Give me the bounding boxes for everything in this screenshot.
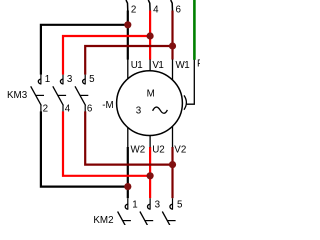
KM3 pole 5-6: blade [75, 86, 86, 105]
motor lead U2 [149, 136, 151, 148]
wire: dark-red loop to KM3 contact 5 [85, 46, 172, 75]
svg-text:U2: U2 [152, 144, 165, 155]
junction dot at line 4 [147, 32, 154, 39]
svg-text:PE: PE [197, 59, 200, 70]
svg-text:M: M [147, 88, 155, 99]
motor PE terminal arc [184, 95, 186, 109]
KM3 pole 5-6: bottom stub [84, 105, 86, 112]
KM3 pole 3-4: terminal bowl [60, 79, 63, 84]
svg-text:1: 1 [132, 200, 137, 211]
KM2 pole 3: terminal stub [149, 198, 151, 209]
KM2 pole 1: blade [118, 212, 129, 231]
svg-text:3: 3 [136, 105, 142, 116]
wire: red return loop KM3-4 to motor U2 [63, 111, 150, 175]
wire: motor U2 down to KM2 pin 3 [149, 147, 151, 198]
svg-text:3: 3 [67, 74, 73, 85]
motor lead W1 [172, 59, 174, 80]
KM2 pole 5: terminal stub [172, 198, 174, 209]
KM2 pole 5: terminal bowl [170, 204, 173, 209]
junction dot at line 2 [124, 21, 131, 28]
wire: red phase to motor V1 [149, 11, 151, 60]
wire: motor V2 down to KM2 pin 5 [171, 147, 173, 198]
motor lead V2 [172, 126, 174, 147]
wire: dark-red phase to motor W1 [171, 11, 173, 60]
svg-text:3: 3 [155, 200, 161, 211]
svg-text:-M: -M [102, 100, 113, 111]
wire: black phase to motor U1 [127, 11, 129, 60]
KM3 pole 1-2: fixed tick [36, 94, 44, 96]
svg-text:W2: W2 [131, 144, 146, 155]
wire: black return loop KM3-2 to motor W2 [41, 111, 128, 186]
svg-text:V1: V1 [152, 60, 163, 71]
svg-text:KM3: KM3 [7, 90, 28, 101]
svg-text:5: 5 [89, 74, 95, 85]
svg-text:U1: U1 [131, 60, 143, 71]
svg-text:4: 4 [153, 4, 159, 15]
KM3 pole 3-4: fixed tick [58, 94, 66, 96]
svg-text:5: 5 [177, 200, 183, 211]
svg-text:2: 2 [131, 4, 136, 15]
junction dot U2 [147, 172, 154, 179]
KM3 pole 1-2: bottom stub [40, 105, 42, 112]
KM2 pole 1: terminal stub [127, 198, 129, 209]
KM2 pole 1: fixed tick [123, 220, 131, 222]
wire: dark-red return loop KM3-6 to motor V2 [85, 111, 172, 164]
KM3 pole 5-6: fixed tick [80, 94, 88, 96]
junction dot at line 6 [169, 42, 176, 49]
svg-text:KM2: KM2 [93, 215, 113, 225]
KM2 pole 3: fixed tick [145, 220, 153, 222]
wire: red loop to KM3 contact 3 [63, 36, 150, 75]
KM3 pole 1-2: blade [31, 86, 42, 105]
KM3 pole 3-4: blade [53, 86, 64, 105]
KM3 pole 3-4: bottom stub [62, 105, 64, 112]
motor lead V1 [149, 59, 151, 70]
KM3 pole 1-2: terminal stub [40, 75, 42, 85]
KM3 pole 1-2: terminal bowl [38, 79, 41, 84]
KM3 pole 3-4: terminal stub [62, 75, 64, 85]
svg-text:1: 1 [45, 74, 50, 85]
svg-text:2: 2 [43, 103, 48, 114]
motor M1 circle body [117, 71, 183, 136]
motor lead U1 [127, 59, 129, 78]
wire: green PE conductor [193, 0, 196, 60]
KM3 pole 5-6: terminal stub [84, 75, 86, 85]
KM1 contact stub above line 2 [126, 0, 128, 12]
svg-text:6: 6 [87, 103, 93, 114]
motor lead W2 [127, 128, 129, 148]
wire: motor W2 down to KM2 pin 1 [127, 147, 129, 198]
KM2 pole 5: fixed tick [167, 220, 175, 222]
KM1 contact stub above line 6 [171, 0, 173, 12]
svg-text:V2: V2 [174, 144, 186, 155]
junction dot W2 [124, 183, 131, 190]
junction dot V2 [169, 161, 176, 168]
motor sine symbol [153, 107, 168, 113]
wire: black loop to KM3 contact 1 [41, 25, 128, 75]
KM2 pole 3: blade [140, 212, 151, 231]
svg-text:4: 4 [65, 103, 71, 114]
KM2 pole 5: blade [162, 212, 173, 231]
KM3 pole 5-6: terminal bowl [83, 79, 86, 84]
motor PE lead [187, 59, 195, 104]
svg-text:6: 6 [176, 4, 182, 15]
KM1 contact stub above line 4 [148, 0, 150, 12]
KM2 pole 3: terminal bowl [148, 204, 151, 209]
KM2 pole 1: terminal bowl [125, 204, 128, 209]
svg-text:W1: W1 [176, 60, 190, 71]
